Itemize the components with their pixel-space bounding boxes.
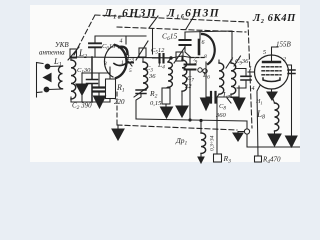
svg-text:4: 4 [120, 38, 123, 45]
inductor L5 winding [182, 60, 187, 91]
choke Dr1 winding [201, 133, 206, 153]
bottom rail wire [136, 119, 247, 121]
triode U1b anode riser [199, 32, 201, 41]
L3 top wire [142, 58, 144, 63]
svg-text:Н1: Н1 [255, 99, 263, 106]
L8 wires [274, 131, 276, 134]
C3 trimmer arrow [134, 87, 148, 97]
capacitor C2 plates [94, 88, 105, 92]
U2 anode wire [272, 47, 279, 62]
triode U1b envelope arc [202, 34, 215, 64]
svg-text:360: 360 [215, 112, 227, 119]
svg-text:Л1а6Н3П: Л1а6Н3П [103, 8, 157, 21]
antenna connector symbol [70, 49, 77, 58]
L8 ground arrow [268, 134, 281, 146]
svg-text:9: 9 [195, 60, 198, 66]
svg-text:0,3÷34: 0,3÷34 [209, 135, 216, 151]
capacitor C7 plates [185, 65, 196, 70]
L7 adjust arrow [227, 98, 231, 103]
svg-text:5: 5 [263, 50, 266, 56]
R2 ground wire [165, 104, 167, 107]
anode riser pin4 [125, 36, 127, 44]
inductor L8 winding [275, 103, 279, 131]
cathode node wire [82, 72, 110, 74]
pin 2 wire [288, 65, 292, 147]
svg-text:Л2 6К4П: Л2 6К4П [252, 13, 296, 25]
label leader slash L1a [149, 16, 158, 28]
shield box right dashed edge [248, 22, 252, 128]
right edge ground arrow [286, 136, 298, 147]
svg-text:220: 220 [114, 98, 125, 106]
pentode U2 grids [262, 67, 281, 75]
U1b cathode wire [205, 62, 207, 98]
shield box top dashed edge [95, 15, 248, 22]
feedthrough ground arrow [233, 133, 243, 141]
fuse box [214, 154, 222, 162]
C5 riser from shield line [152, 29, 154, 54]
capacitor C5 plates [160, 54, 164, 63]
inner shield left dashed edge [116, 92, 118, 125]
inner shield top dashed line [117, 27, 246, 32]
capacitor C9 plates [241, 76, 251, 80]
svg-text:3: 3 [103, 61, 107, 67]
svg-text:C615: C615 [162, 32, 178, 43]
inductor L7 winding [231, 63, 236, 94]
cathode wire pin3 to R1 [109, 67, 111, 79]
svg-text:22: 22 [185, 83, 192, 90]
L3 adjust arrow [128, 61, 132, 66]
pin 5 stub [127, 62, 133, 64]
resistor R4 wire [257, 93, 258, 156]
label leader slash L1b [186, 16, 194, 29]
inductor L2 secondary winding [71, 60, 76, 99]
triode U1a cathode [114, 64, 126, 66]
rail junction dot 1 [188, 118, 191, 121]
trimmer core arrow [136, 41, 148, 60]
scanned photo white area [30, 5, 300, 162]
L3 bottom wire [136, 90, 143, 119]
svg-text:1: 1 [121, 60, 124, 66]
svg-text:0,15: 0,15 [150, 100, 162, 107]
resistor R2 box [162, 88, 170, 104]
C9 ground arrow [233, 98, 245, 110]
triode U1b anode [198, 40, 201, 54]
grid wire to tube b pin7 [171, 56, 191, 58]
L7 wires [231, 60, 239, 98]
U1b heater circles [198, 68, 202, 72]
svg-text:8: 8 [204, 54, 207, 60]
C5 wires [153, 57, 172, 59]
capacitor C8 plates [211, 92, 216, 103]
Dr1 down arrow [198, 157, 204, 163]
heater feed wire [216, 121, 218, 154]
tank ground arrow [81, 73, 83, 84]
C7 wires [189, 58, 191, 122]
capacitor C6b plates [180, 40, 191, 45]
R1 bottom wire [109, 99, 111, 103]
antenna terminal dots [45, 64, 51, 70]
pentode U2 anode [263, 61, 280, 63]
tank circuit wires [71, 57, 171, 60]
rail to feedthrough [246, 121, 248, 129]
cathode ground arrow [201, 98, 212, 110]
svg-text:4: 4 [252, 85, 255, 92]
resistor R4 box [255, 156, 262, 162]
svg-text:2: 2 [283, 57, 286, 63]
top rail wire [95, 36, 146, 43]
inductor L4 winding [168, 62, 172, 87]
pentode U2 envelope [255, 55, 289, 89]
U2 cathode wire [272, 89, 275, 103]
antenna plug triangle [44, 74, 52, 82]
C8 wires [206, 96, 239, 98]
capacitor C6 plates [89, 43, 101, 47]
inductor L1 primary winding [58, 66, 62, 89]
pentode U2 cathode [263, 78, 280, 82]
shield ground arrow [117, 125, 119, 129]
suppressor ground arrow [267, 92, 277, 100]
resistor R1 box [106, 79, 116, 99]
svg-text:6: 6 [202, 40, 205, 46]
svg-text:1: 1 [249, 66, 252, 72]
L4 wires [166, 58, 171, 88]
triode U1a anode [119, 47, 128, 54]
antenna feeder wire [37, 63, 44, 98]
C2 ground arrow [98, 92, 100, 97]
riser to C6 [94, 48, 96, 57]
capacitor C2 stem [98, 73, 100, 87]
R2 ground arrow [161, 107, 173, 118]
trimmer cap C3 plates [136, 90, 146, 94]
trimmer core box L4 [176, 52, 183, 61]
capacitor C1 plates [87, 57, 98, 102]
shield box slanted dashed edge [74, 15, 95, 55]
trimmer core arrow L4 [174, 47, 185, 63]
wires to L1 [48, 66, 63, 90]
svg-text:5: 5 [129, 68, 132, 74]
inductor L6 winding [219, 63, 224, 94]
junction dot after C5 [169, 56, 172, 59]
triode U1a envelope thick arc [115, 45, 127, 78]
feedthrough ground wire [238, 132, 245, 134]
triode U1b top rail [185, 31, 232, 60]
Dr1 wires [200, 121, 202, 158]
svg-text:антенна: антенна [39, 49, 65, 57]
triode U1a envelope [104, 46, 113, 77]
capacitor C9 loop wires [236, 69, 246, 99]
pin 2 capacitor plates [288, 70, 295, 74]
inductor L3 winding [143, 62, 148, 90]
svg-text:155В: 155В [276, 41, 292, 49]
L5 wires [181, 56, 183, 95]
page background [0, 0, 300, 168]
pin 1 wire [248, 71, 255, 73]
rail junction dot 2 [199, 119, 202, 122]
feedthrough to bottom rail [247, 134, 300, 147]
variable cap slashes [226, 56, 241, 68]
trimmer core box L3 [139, 48, 146, 57]
triode U1b grid [191, 57, 204, 59]
inner shield bottom dashed edge [117, 125, 237, 130]
shield feedthrough circle [244, 129, 249, 134]
svg-text:36: 36 [148, 73, 156, 80]
L6 wires [217, 60, 219, 121]
L5 ground arrow [181, 95, 183, 106]
C6b wires [185, 32, 191, 58]
pin 4 wire [257, 86, 260, 94]
